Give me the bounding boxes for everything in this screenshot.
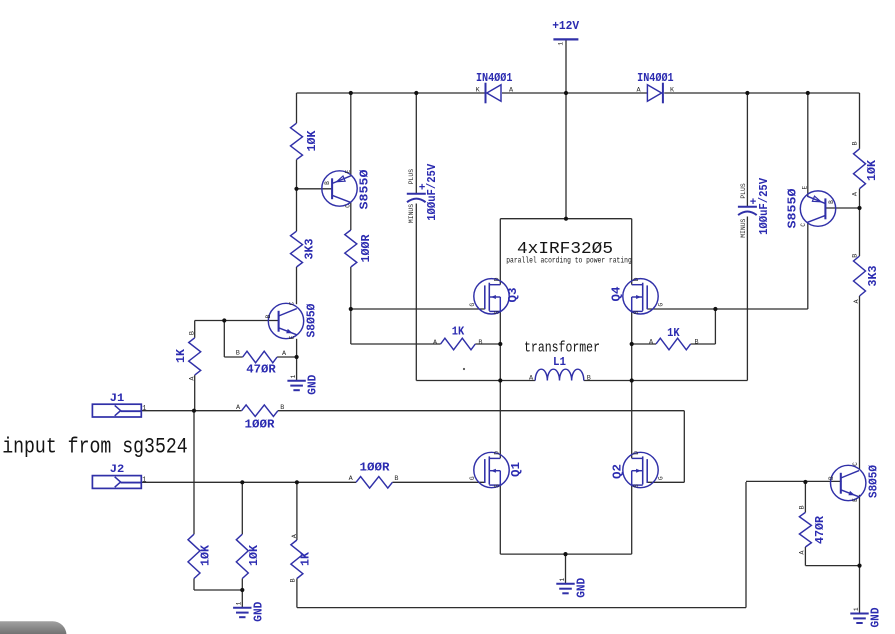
svg-text:GND: GND xyxy=(576,578,589,598)
svg-text:PLUS: PLUS xyxy=(408,169,415,185)
svg-text:E: E xyxy=(802,185,809,189)
svg-text:B: B xyxy=(280,404,284,412)
svg-text:C: C xyxy=(800,223,807,227)
svg-text:1ØK: 1ØK xyxy=(865,159,879,181)
svg-text:B: B xyxy=(587,374,591,382)
svg-text:L1: L1 xyxy=(553,355,566,369)
svg-text:1K: 1K xyxy=(299,551,313,566)
svg-text:MINUS: MINUS xyxy=(740,218,747,237)
svg-text:1: 1 xyxy=(142,405,146,413)
svg-text:B: B xyxy=(290,578,298,582)
svg-text:B: B xyxy=(265,314,272,318)
svg-text:GND: GND xyxy=(870,607,883,627)
svg-text:S8Ø5Ø: S8Ø5Ø xyxy=(305,304,319,338)
svg-text:+12V: +12V xyxy=(552,19,580,33)
svg-text:1K: 1K xyxy=(667,326,680,340)
svg-text:G: G xyxy=(469,303,476,307)
svg-text:D: D xyxy=(633,277,640,281)
svg-text:B: B xyxy=(828,476,835,480)
svg-text:1: 1 xyxy=(558,42,565,46)
svg-text:1ØK: 1ØK xyxy=(247,544,261,566)
svg-text:GND: GND xyxy=(252,602,265,622)
svg-text:B: B xyxy=(798,505,806,509)
svg-text:1ØK: 1ØK xyxy=(305,130,319,152)
svg-text:1ØØR: 1ØØR xyxy=(360,461,391,475)
svg-text:G: G xyxy=(469,476,476,480)
svg-text:B: B xyxy=(851,141,859,145)
svg-text:B: B xyxy=(394,475,398,483)
svg-text:PLUS: PLUS xyxy=(740,183,747,199)
svg-text:IN4ØØ1: IN4ØØ1 xyxy=(637,71,674,85)
svg-text:C: C xyxy=(852,462,859,466)
svg-text:B: B xyxy=(236,350,240,358)
svg-text:B: B xyxy=(188,331,196,335)
svg-text:D: D xyxy=(633,451,640,455)
svg-text:S: S xyxy=(633,310,640,314)
svg-text:3K3: 3K3 xyxy=(303,239,317,260)
svg-text:E: E xyxy=(345,169,352,173)
svg-text:1K: 1K xyxy=(452,325,465,339)
svg-text:C: C xyxy=(288,301,295,305)
svg-text:Q2: Q2 xyxy=(611,464,625,479)
svg-text:input from sg3524: input from sg3524 xyxy=(2,435,188,460)
svg-text:Q1: Q1 xyxy=(509,462,523,477)
svg-text:47ØR: 47ØR xyxy=(246,363,276,377)
svg-text:S: S xyxy=(633,484,640,488)
svg-text:IN4ØØ1: IN4ØØ1 xyxy=(476,71,513,85)
svg-text:D: D xyxy=(494,451,501,455)
svg-text:B: B xyxy=(478,339,482,347)
svg-text:B: B xyxy=(324,181,331,185)
svg-text:D: D xyxy=(494,277,501,281)
svg-text:1ØØuF/25V: 1ØØuF/25V xyxy=(757,177,771,235)
svg-text:S855Ø: S855Ø xyxy=(786,189,800,229)
svg-text:J1: J1 xyxy=(110,393,125,405)
svg-text:47ØR: 47ØR xyxy=(813,515,827,544)
svg-text:E: E xyxy=(852,498,859,502)
svg-text:1: 1 xyxy=(559,577,566,581)
svg-text:Q3: Q3 xyxy=(506,288,520,303)
svg-text:G: G xyxy=(658,476,665,480)
svg-text:1K: 1K xyxy=(174,348,188,363)
svg-text:J2: J2 xyxy=(110,464,125,476)
svg-text:Q4: Q4 xyxy=(610,287,624,302)
svg-text:B: B xyxy=(828,200,835,204)
svg-text:S855Ø: S855Ø xyxy=(358,170,372,210)
svg-text:B: B xyxy=(695,338,699,346)
svg-text:MINUS: MINUS xyxy=(408,204,415,223)
svg-text:parallel acording to power rat: parallel acording to power rating xyxy=(506,257,632,266)
svg-text:1ØØR: 1ØØR xyxy=(245,418,276,432)
svg-text:1: 1 xyxy=(853,607,860,611)
svg-text:S: S xyxy=(494,484,501,488)
svg-text:1: 1 xyxy=(290,374,297,378)
svg-text:+: + xyxy=(419,182,426,194)
svg-text:B: B xyxy=(851,254,859,258)
svg-text:1ØØuF/25V: 1ØØuF/25V xyxy=(425,163,439,221)
svg-text:1: 1 xyxy=(142,476,146,484)
svg-text:S: S xyxy=(494,310,501,314)
svg-text:1ØK: 1ØK xyxy=(199,544,213,566)
svg-text:E: E xyxy=(288,335,295,339)
svg-text:+: + xyxy=(750,197,757,209)
svg-text:GND: GND xyxy=(307,375,320,395)
svg-text:1: 1 xyxy=(236,601,243,605)
svg-text:C: C xyxy=(345,204,352,208)
svg-text:G: G xyxy=(658,303,665,307)
svg-text:1ØØR: 1ØØR xyxy=(359,234,373,263)
svg-text:3K3: 3K3 xyxy=(866,266,880,287)
svg-text:transformer: transformer xyxy=(524,340,600,356)
svg-text:S8Ø5Ø: S8Ø5Ø xyxy=(867,465,881,498)
